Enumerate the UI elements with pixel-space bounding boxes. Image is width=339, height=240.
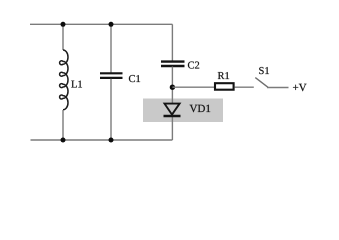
label C2 [188,62,199,69]
wire top horizontal [30,23,172,25]
label S1 [259,67,269,74]
node dot C1 top [109,22,114,27]
inductor L1 coil [60,50,68,110]
diode VD1 cathode bar [164,115,181,118]
wire L1 bottom lead [62,110,64,140]
label +V supply [293,84,307,91]
capacitor C1 top plate [100,72,123,74]
diode VD1 triangle [165,104,180,115]
node dot L1 top [61,22,66,27]
wire R1 to switch [235,86,254,88]
label R1 [218,72,229,79]
capacitor C1 bottom plate [100,77,123,79]
label L1 [71,81,82,88]
wire C1 top lead [110,24,112,73]
node junction dot at C2/R1 branch [170,85,175,90]
capacitor C2 top plate [161,60,185,62]
switch S1 lever [255,78,268,88]
node dot C1 bottom [109,138,114,143]
capacitor C2 bottom plate [161,65,185,67]
label C1 [129,75,140,82]
wire L1 top lead [62,24,64,50]
node dot L1 bottom [61,138,66,143]
highlight box around VD1 [143,99,223,123]
wire branch junction to R1 [172,86,214,88]
wire bottom horizontal [31,139,173,141]
wire C1 bottom lead [110,79,112,140]
wire right vertical (VD1 bottom to bottom wire corner) [171,116,173,140]
wire switch to +V [267,87,289,89]
wire right vertical (top wire corner down to C2) [171,24,173,61]
resistor R1 body [215,83,234,90]
wire C2 bottom lead down to junction [171,67,173,104]
label VD1 [190,105,211,113]
